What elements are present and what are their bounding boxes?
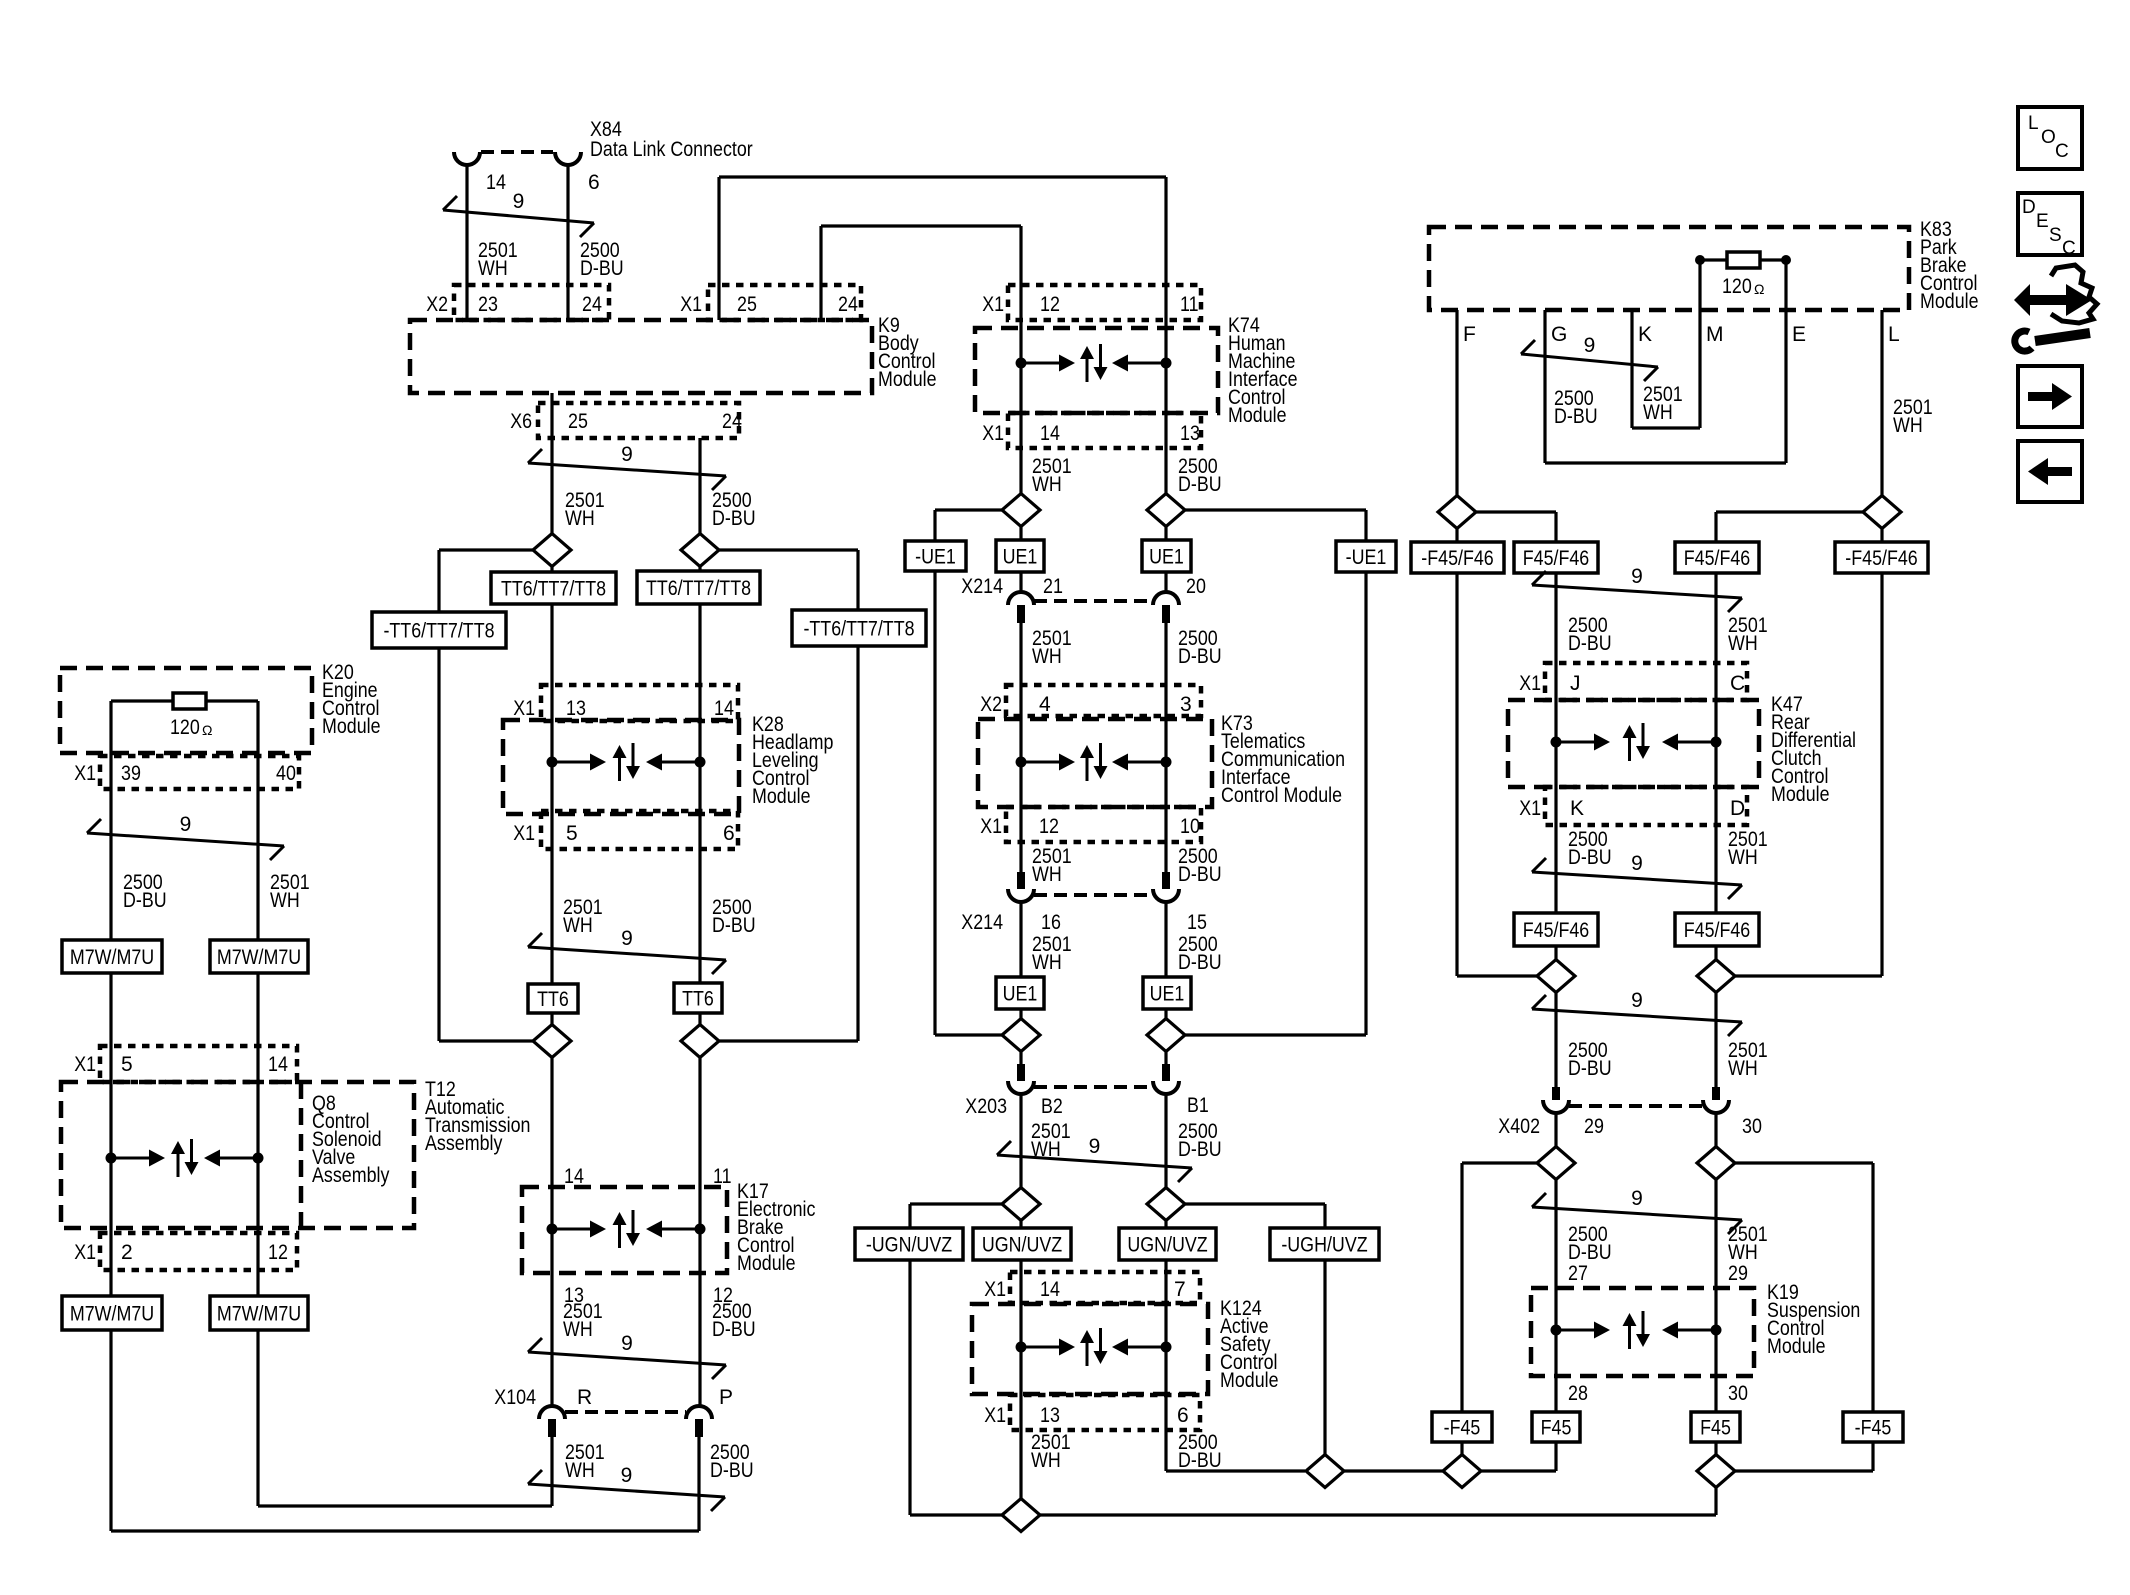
module K19 label — [1767, 1281, 1860, 1358]
pin P (X104) — [719, 1386, 733, 1409]
sidebar DESC button — [2018, 193, 2082, 259]
svg-text:D-BU: D-BU — [1568, 632, 1612, 655]
twisted pair symbol (X6) — [528, 449, 726, 490]
wire to -TT6/TT7/TT8 left — [439, 550, 533, 612]
connector X214 bottom label — [961, 911, 1003, 934]
connector X1 bottom label (K28) — [513, 822, 535, 845]
svg-text:4: 4 — [1039, 693, 1051, 716]
wire splice to K19 (D-BU) — [1554, 1179, 1557, 1288]
pin 14 (K74 X1 bottom) — [1040, 422, 1060, 445]
wire 2500 D-BU K17 to X104 — [698, 1273, 701, 1406]
splice diamond (D-BU, UE1 row) — [1147, 494, 1185, 527]
svg-text:14: 14 — [1040, 1278, 1060, 1301]
wire 2500 D-BU X214 to K73 — [1164, 623, 1167, 872]
svg-text:Module: Module — [1228, 404, 1287, 427]
wire splice to X203 (WH) — [1019, 1051, 1022, 1064]
connector X214 top pin 20 — [1162, 605, 1170, 623]
svg-text:J: J — [1570, 672, 1581, 695]
svg-text:Module: Module — [1771, 783, 1830, 806]
wire K19 internal — [1556, 1288, 1716, 1376]
svg-text:14: 14 — [268, 1053, 288, 1076]
svg-text:30: 30 — [1742, 1115, 1762, 1138]
module K17 label — [737, 1180, 815, 1275]
module K19 Suspension Control Module — [1531, 1288, 1754, 1376]
wire WH diamond to TT6/TT7/TT8 box — [550, 566, 553, 572]
svg-text:Data Link Connector: Data Link Connector — [590, 138, 753, 161]
pin 24 (K9 X6) — [722, 410, 742, 433]
wire -F45 right link — [1735, 1442, 1873, 1471]
svg-text:Module: Module — [752, 785, 811, 808]
svg-text:12: 12 — [268, 1241, 288, 1264]
wire label 2501 WH (K73) — [1032, 845, 1072, 886]
svg-text:B1: B1 — [1187, 1094, 1209, 1117]
svg-text:D-BU: D-BU — [1568, 846, 1612, 869]
twisted pair count label 9 (K20) — [180, 813, 192, 836]
connector X1 top (K47) — [1545, 663, 1747, 700]
svg-text:5: 5 — [121, 1053, 133, 1076]
connector X1 top (Q8) — [100, 1046, 297, 1082]
splice diamond (D-BU, X203 row) — [1147, 1019, 1185, 1052]
CAN transceiver symbol (K73) — [1016, 743, 1172, 781]
wire K83 pin L down — [1880, 310, 1883, 496]
twisted pair symbol (X402 upper) — [1532, 995, 1742, 1036]
wire 2501 WH TT box to K28 — [550, 604, 553, 685]
wire K17 internal — [552, 1187, 700, 1273]
svg-text:X1: X1 — [74, 1053, 96, 1076]
twisted pair count label 9 (K19 upper) — [1631, 1187, 1643, 1210]
wire -UE1 right down — [1185, 572, 1366, 1035]
connector X1 top (K124) — [1010, 1272, 1200, 1303]
wire splice to X203 (D-BU) — [1164, 1051, 1167, 1064]
pin 13 (K28 X1 top) — [566, 697, 586, 720]
svg-text:7: 7 — [1174, 1278, 1186, 1301]
twisted pair count label 9 (K47 lower) — [1631, 852, 1643, 875]
svg-text:D-BU: D-BU — [712, 1318, 756, 1341]
connector X6 label (K9) — [510, 410, 532, 433]
wire label 2500 D-BU (K28) — [712, 896, 756, 937]
connector X1 bottom (K124) — [1010, 1395, 1200, 1430]
svg-text:-F45/F46: -F45/F46 — [1421, 547, 1493, 570]
splice diamond (bottom bus WH) — [1002, 1499, 1040, 1532]
svg-text:M7W/M7U: M7W/M7U — [217, 1303, 301, 1326]
net box F45 (WH) — [1691, 1412, 1740, 1442]
wire TT6 to splice (D-BU) — [698, 1013, 701, 1025]
net box F45/F46 (lower D-BU) — [1514, 913, 1598, 946]
pin 12 (Q8 X1 bottom) — [268, 1241, 288, 1264]
wire 2501 WH M7W/M7U to Q8 — [256, 973, 259, 1296]
svg-text:X1: X1 — [513, 822, 535, 845]
svg-text:C: C — [2062, 238, 2076, 259]
pin 14 (Q8 X1 top) — [268, 1053, 288, 1076]
svg-text:WH: WH — [563, 1318, 593, 1341]
svg-text:13: 13 — [566, 697, 586, 720]
wire label 2501 WH (K83 L) — [1893, 396, 1933, 437]
wire L diamond to F45/F46 — [1716, 512, 1863, 542]
svg-text:Ω: Ω — [202, 722, 212, 738]
wire K124 pin 6 to F45 bus — [1166, 1430, 1305, 1471]
connector X1 bottom (K74) — [1008, 413, 1201, 448]
svg-text:D-BU: D-BU — [1568, 1057, 1612, 1080]
svg-text:C: C — [1730, 672, 1745, 695]
net box UE1 (D-BU) — [1142, 540, 1191, 572]
connector X214 bottom pin 16 — [1017, 872, 1025, 889]
pin 6 (X84) — [588, 171, 600, 194]
assembly T12 label — [425, 1078, 531, 1155]
wire label 2501 WH (left) — [270, 871, 310, 912]
wire K47 internal — [1556, 663, 1716, 825]
pin 13 (K17) — [564, 1284, 584, 1307]
CAN transceiver symbol (K28) — [547, 743, 706, 781]
svg-text:UE1: UE1 — [1003, 546, 1038, 569]
wire K20 resistor left lead — [111, 699, 173, 702]
connector X104 dashed link — [565, 1410, 686, 1414]
wire 2501 WH X84 pin 14 to K9 — [465, 165, 468, 320]
svg-text:-F45/F46: -F45/F46 — [1845, 547, 1917, 570]
svg-text:-F45: -F45 — [1444, 1417, 1481, 1440]
twisted pair count label 9 (K47 upper) — [1631, 565, 1643, 588]
wire 2500 D-BU M7W/M7U to Q8 — [109, 973, 112, 1296]
svg-text:UE1: UE1 — [1149, 546, 1184, 569]
svg-text:X6: X6 — [510, 410, 532, 433]
svg-text:TT6: TT6 — [682, 988, 714, 1011]
svg-text:13: 13 — [1040, 1404, 1060, 1427]
pin 12 (K73 X1) — [1039, 815, 1059, 838]
CAN transceiver symbol (K19) — [1551, 1311, 1722, 1349]
wire 2500 D-BU X84 pin 6 to K9 — [566, 165, 569, 320]
svg-text:F45: F45 — [1700, 1417, 1731, 1440]
wire -UE1 left down — [935, 571, 1002, 1035]
pin 28 (K19) — [1568, 1382, 1588, 1405]
wire to -UGN/UVZ — [910, 1204, 1002, 1229]
CAN transceiver symbol (Q8) — [106, 1139, 264, 1177]
svg-text:9: 9 — [621, 1464, 633, 1487]
module K28 Headlamp Leveling Control Module — [503, 720, 739, 814]
wire label 2501 WH (K47 upper) — [1728, 614, 1768, 655]
svg-text:14: 14 — [564, 1165, 584, 1188]
harness box M7W/M7U (upper right) — [210, 940, 308, 973]
pin 5 (Q8 X1 top) — [121, 1053, 133, 1076]
wire label 2501 WH (K74) — [1032, 455, 1072, 496]
wire UGN box to K124 (WH) — [1019, 1260, 1022, 1272]
wire 2500 D-BU K9 X1-24 to K74 X1-12 — [821, 226, 1021, 320]
module Q8 / T12 divider — [299, 1082, 304, 1228]
pin J (K47) — [1570, 672, 1581, 695]
net box -UE1 (right) — [1336, 541, 1396, 572]
svg-text:WH: WH — [1032, 863, 1062, 886]
svg-text:29: 29 — [1728, 1262, 1748, 1285]
svg-text:Module: Module — [1920, 290, 1979, 313]
wire K74 internal — [1021, 285, 1166, 494]
wire K28 internal — [552, 685, 700, 849]
wire D-BU diamond to TT6/TT7/TT8 box — [698, 566, 701, 571]
pin 14 (K124 X1 top) — [1040, 1278, 1060, 1301]
wire 2501 WH F45/F46 to K47 — [1714, 573, 1717, 663]
pin 5 (K28 X1 bottom) — [566, 822, 578, 845]
connector X1 top label (K28) — [513, 697, 535, 720]
twisted pair count label 9 (X402 upper) — [1631, 989, 1643, 1012]
wire UE1 to X214 (WH) — [1019, 572, 1022, 592]
wire label 2501 WH (X214 top) — [1032, 627, 1072, 668]
wire splice to X402 (WH) — [1714, 992, 1717, 1087]
svg-text:X2: X2 — [980, 693, 1002, 716]
connector X2 top (K73) — [1006, 685, 1201, 716]
connector X1 top label (K74) — [982, 293, 1004, 316]
connector X402 cup 30 — [1703, 1100, 1729, 1113]
svg-text:12: 12 — [1039, 815, 1059, 838]
wire label 2500 D-BU (X402 upper) — [1568, 1039, 1612, 1080]
pin 14 (X84) — [486, 171, 506, 194]
wire label 2500 D-BU (X6) — [712, 489, 756, 530]
connector X203 pin B2 — [1017, 1064, 1025, 1081]
svg-text:WH: WH — [270, 889, 300, 912]
wire -UGN/UVZ down to bottom bus — [910, 1260, 1002, 1515]
svg-text:Ω: Ω — [1754, 281, 1764, 297]
pin 2 (Q8 X1 bottom) — [121, 1241, 133, 1264]
pin 6 (K28 X1 bottom) — [723, 822, 735, 845]
connector X84 cup right — [555, 152, 581, 165]
svg-text:X1: X1 — [680, 293, 702, 316]
svg-text:WH: WH — [563, 914, 593, 937]
wire label 2501 WH (X84) — [478, 239, 518, 280]
connector X1 bottom label (K73) — [980, 815, 1002, 838]
connector X1 bottom (Q8) — [100, 1233, 297, 1270]
twisted pair symbol (K19 upper) — [1532, 1193, 1742, 1234]
connector X2 label (K9) — [426, 293, 448, 316]
twisted pair symbol (X203) — [997, 1141, 1192, 1182]
resistor 120 ohm (K83) — [1727, 252, 1760, 268]
connector X402 label — [1498, 1115, 1540, 1138]
svg-text:10: 10 — [1180, 815, 1200, 838]
twisted pair count label 9 (K17 lower) — [621, 1332, 633, 1355]
wire label 2500 D-BU (K19) — [1568, 1223, 1612, 1264]
module K124 Active Safety Control Module — [972, 1304, 1208, 1394]
svg-text:M: M — [1706, 323, 1724, 346]
svg-text:X1: X1 — [982, 293, 1004, 316]
svg-text:-F45: -F45 — [1855, 1417, 1892, 1440]
module K9 Body Control Module — [410, 320, 872, 393]
pin 13 (K124 X1 bottom) — [1040, 1404, 1060, 1427]
net box -UE1 (left) — [905, 541, 966, 571]
svg-text:D-BU: D-BU — [123, 889, 167, 912]
splice diamond (D-BU, lower TT row) — [681, 1025, 719, 1058]
pin 4 (K73 X2) — [1039, 693, 1051, 716]
wire 2501 WH K17 to X104 — [550, 1273, 553, 1406]
wire to -UE1 right — [1185, 510, 1366, 541]
svg-text:-TT6/TT7/TT8: -TT6/TT7/TT8 — [383, 620, 494, 643]
CAN transceiver symbol (K74) — [1016, 344, 1172, 382]
splice diamond (D-BU, UGN row) — [1147, 1188, 1185, 1221]
svg-text:9: 9 — [180, 813, 192, 836]
connector X1 bottom label (K74) — [982, 422, 1004, 445]
pin 16 (X214 bottom) — [1041, 911, 1061, 934]
svg-text:F45/F46: F45/F46 — [1523, 919, 1590, 942]
svg-text:F45: F45 — [1541, 1417, 1572, 1440]
svg-text:M7W/M7U: M7W/M7U — [70, 946, 154, 969]
wire label 2501 WH (X203) — [1031, 1120, 1071, 1161]
wire label 2501 WH (K47 lower) — [1728, 828, 1768, 869]
resistor 120 ohm (K20) — [173, 693, 206, 709]
wire -F45/F46 right down — [1735, 573, 1882, 976]
connector X1 bottom label (Q8) — [74, 1241, 96, 1264]
connector X1 bottom (K47) — [1545, 787, 1747, 825]
svg-text:11: 11 — [1180, 293, 1199, 316]
wire label 2501 WH (X402 upper) — [1728, 1039, 1768, 1080]
wire K124 internal — [1021, 1272, 1166, 1430]
svg-text:E: E — [1792, 323, 1806, 346]
svg-text:25: 25 — [737, 293, 757, 316]
wire -F45 left stub — [1460, 1442, 1463, 1455]
svg-text:F45/F46: F45/F46 — [1523, 547, 1590, 570]
wire label 2501 WH (K19) — [1728, 1223, 1768, 1264]
connector X203 cup B2 — [1008, 1081, 1034, 1094]
connector X402 pin 30 — [1712, 1087, 1720, 1100]
svg-text:D-BU: D-BU — [712, 507, 756, 530]
svg-text:S: S — [2049, 225, 2062, 246]
wire X214 to UE1 (D-BU) — [1164, 902, 1167, 977]
wire 2501 WH K28 to TT6 — [550, 849, 553, 984]
wire K19 to F45 (WH) — [1714, 1376, 1717, 1412]
module K47 label — [1771, 693, 1856, 806]
svg-text:WH: WH — [1643, 401, 1673, 424]
harness box M7W/M7U (lower right) — [210, 1296, 308, 1330]
wire label 2500 D-BU (K83 G) — [1554, 387, 1598, 428]
wire 2501 WH K9 X1-25 to K74 X1-11 — [719, 177, 1166, 320]
connector X1 bottom label (K47) — [1519, 797, 1541, 820]
svg-text:9: 9 — [1631, 852, 1643, 875]
pin K (K47 bottom) — [1570, 797, 1584, 820]
svg-text:UE1: UE1 — [1150, 983, 1185, 1006]
module K83 label — [1920, 218, 1979, 313]
svg-text:WH: WH — [565, 1459, 595, 1482]
sidebar previous arrow button — [2018, 441, 2082, 502]
connector X1 top label (Q8) — [74, 1053, 96, 1076]
net box -UGH/UVZ — [1270, 1228, 1379, 1260]
wire X214 to UE1 (WH) — [1019, 902, 1022, 977]
svg-text:UE1: UE1 — [1003, 983, 1038, 1006]
svg-text:D-BU: D-BU — [1568, 1241, 1612, 1264]
net box UE1 (WH) — [996, 540, 1044, 572]
svg-text:D-BU: D-BU — [1178, 951, 1222, 974]
svg-text:Module: Module — [878, 368, 937, 391]
net box UGN/UVZ (WH) — [973, 1228, 1071, 1260]
connector X104 pin R — [548, 1419, 556, 1437]
connector X402 cup 29 — [1543, 1100, 1569, 1113]
splice diamond (-F45 left) — [1443, 1455, 1481, 1488]
svg-text:120: 120 — [170, 716, 200, 739]
twisted pair symbol (K47 lower) — [1532, 858, 1742, 899]
svg-text:P: P — [719, 1386, 733, 1409]
twisted pair symbol (K28 lower) — [528, 933, 726, 974]
net box UE1 (lower WH) — [996, 977, 1044, 1009]
module K83 Park Brake Control Module — [1429, 227, 1909, 310]
connector X1 label (K9) — [680, 293, 702, 316]
wire -TT6 left down to TT6 splice — [439, 648, 533, 1041]
splice diamond (WH, F45 row) — [1697, 960, 1735, 993]
connector X402 pin 29 — [1552, 1087, 1560, 1100]
wire 2501 WH X214 to K73 — [1019, 623, 1022, 872]
svg-text:-UGN/UVZ: -UGN/UVZ — [866, 1234, 952, 1257]
wire K20 resistor right lead — [206, 699, 258, 702]
wire label 2500 D-BU (K73) — [1178, 845, 1222, 886]
twisted pair count label 9 (X203) — [1089, 1135, 1101, 1158]
connector X84 dashed link — [481, 150, 553, 154]
svg-text:D: D — [1730, 797, 1745, 820]
net box TT6/TT7/TT8 (WH) — [491, 572, 616, 604]
svg-text:3: 3 — [1180, 693, 1192, 716]
CAN transceiver symbol (K17) — [547, 1210, 706, 1248]
connector X104 label — [494, 1386, 536, 1409]
wire 2500 D-BU K47 to F45/F46 — [1554, 825, 1557, 913]
svg-text:24: 24 — [838, 293, 858, 316]
svg-text:Assembly: Assembly — [425, 1132, 503, 1155]
wire UGN diamond stub WH — [1019, 1220, 1022, 1228]
svg-text:X1: X1 — [74, 762, 96, 785]
pin M label (K83) — [1706, 323, 1724, 346]
svg-text:24: 24 — [582, 293, 602, 316]
wire F45 D-BU to bus — [1481, 1442, 1556, 1471]
wire X203 to UGN splice (D-BU) — [1164, 1094, 1167, 1188]
pin D (K47 bottom) — [1730, 797, 1745, 820]
svg-text:D-BU: D-BU — [710, 1459, 754, 1482]
wire 2501 WH Q8 to X104 R — [258, 1330, 552, 1506]
twisted pair symbol (X84) — [443, 196, 594, 237]
svg-text:M7W/M7U: M7W/M7U — [70, 1303, 154, 1326]
connector X214 bottom pin 15 — [1162, 872, 1170, 889]
assembly T12 Automatic Transmission Assembly box — [61, 1082, 414, 1228]
connector X104 cup P — [686, 1406, 712, 1419]
net box -F45 (right) — [1843, 1412, 1903, 1442]
splice diamond (WH, X203 row) — [1002, 1019, 1040, 1052]
svg-text:D-BU: D-BU — [1178, 473, 1222, 496]
pin 29 (K19) — [1728, 1262, 1748, 1285]
svg-text:39: 39 — [121, 762, 141, 785]
splice diamond (F45 WH) — [1697, 1455, 1735, 1488]
splice diamond (UGH bus) — [1306, 1455, 1344, 1488]
wire 2501 WH K9 X6-25 down — [550, 393, 553, 534]
wire K124 pin 13 to bottom splice — [1019, 1430, 1022, 1499]
svg-text:X1: X1 — [980, 815, 1002, 838]
svg-text:B2: B2 — [1041, 1095, 1063, 1118]
svg-text:Module: Module — [737, 1252, 796, 1275]
wire label 2501 WH (X104) — [565, 1441, 605, 1482]
svg-text:6: 6 — [1177, 1404, 1189, 1427]
wire 2500 D-BU F45/F46 to K47 — [1554, 573, 1557, 663]
svg-text:X1: X1 — [982, 422, 1004, 445]
net box -TT6/TT7/TT8 (left) — [372, 612, 506, 648]
module K20 label — [322, 661, 381, 738]
svg-text:Module: Module — [1220, 1369, 1279, 1392]
pin 13 (K74 X1 bottom) — [1180, 422, 1200, 445]
wire -F45/F46 left down — [1457, 573, 1538, 976]
twisted pair symbol (K17 lower) — [528, 1338, 726, 1379]
svg-text:Module: Module — [322, 715, 381, 738]
wire label 2500 D-BU (X214 bottom) — [1178, 933, 1222, 974]
svg-text:X203: X203 — [965, 1095, 1007, 1118]
connector X214 bottom dashed link — [1034, 893, 1153, 897]
splice diamond (WH, lower TT row) — [533, 1025, 571, 1058]
sidebar LOC button — [2018, 107, 2082, 169]
svg-text:13: 13 — [1180, 422, 1200, 445]
connector X1 (K20) — [100, 756, 299, 789]
splice diamond (WH, TT row) — [533, 534, 571, 567]
net box F45/F46 (WH) — [1675, 542, 1759, 573]
module K47 Rear Differential Clutch Control Module — [1508, 700, 1759, 787]
pin 7 (K124 X1 top) — [1174, 1278, 1186, 1301]
svg-text:9: 9 — [621, 443, 633, 466]
svg-text:WH: WH — [565, 507, 595, 530]
connector X2 (K9) — [454, 285, 609, 320]
svg-text:L: L — [1888, 323, 1900, 346]
